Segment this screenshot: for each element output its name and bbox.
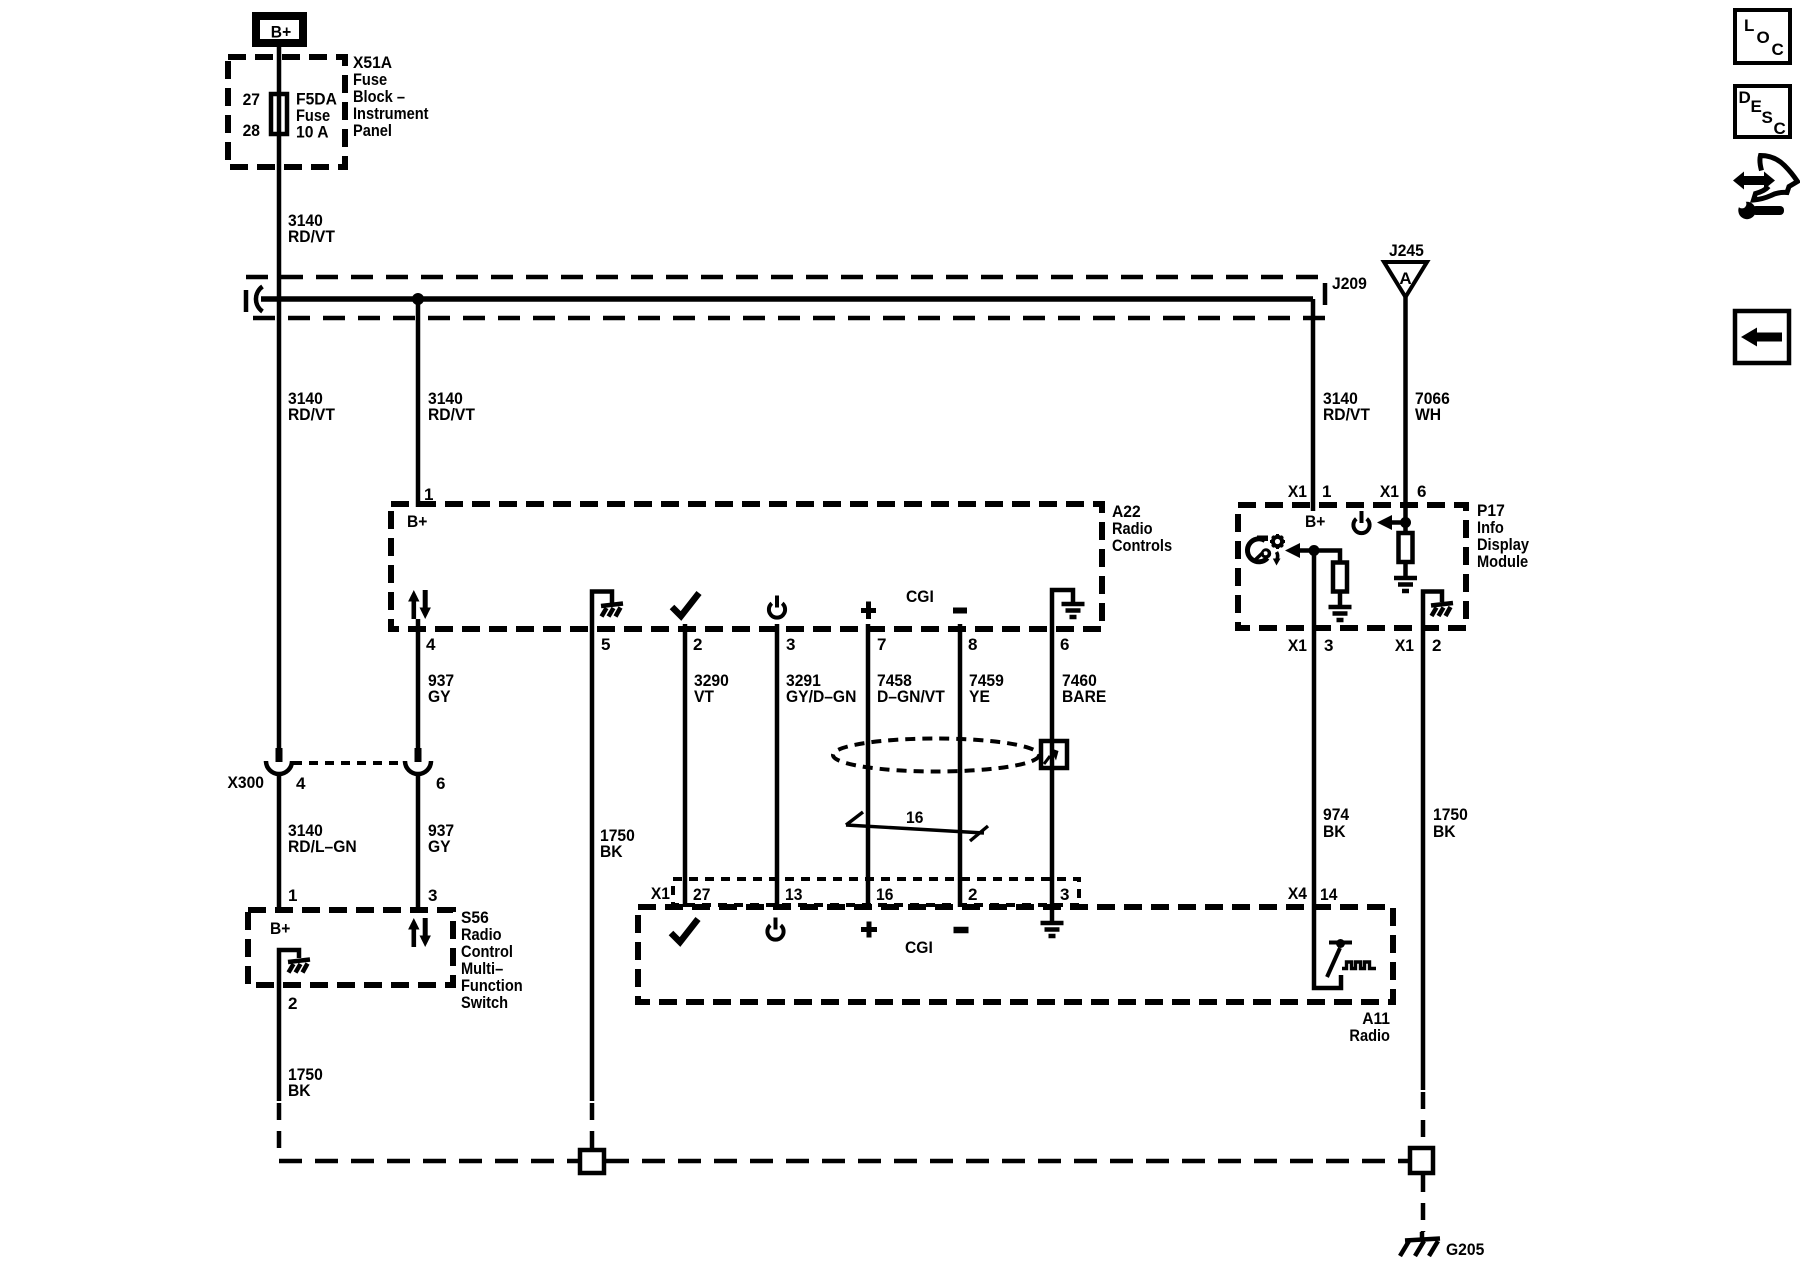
svg-text:6: 6 [1417,482,1426,501]
svg-text:Switch: Switch [461,993,508,1012]
svg-text:RD/VT: RD/VT [288,405,335,424]
svg-text:O: O [1757,28,1770,47]
svg-text:14: 14 [1320,885,1338,904]
svg-text:16: 16 [906,808,923,827]
svg-text:2: 2 [1432,636,1441,655]
svg-text:1: 1 [1322,482,1331,501]
svg-text:E: E [1751,97,1762,116]
svg-text:X1: X1 [1288,482,1307,501]
svg-text:13: 13 [785,885,802,904]
svg-text:VT: VT [694,687,715,706]
svg-text:YE: YE [969,687,990,706]
svg-text:BARE: BARE [1062,687,1106,706]
svg-text:27: 27 [243,90,260,109]
svg-text:5: 5 [601,635,610,654]
svg-text:C: C [1774,119,1786,138]
svg-text:8: 8 [968,635,977,654]
svg-text:16: 16 [876,885,893,904]
svg-text:2: 2 [968,885,977,904]
svg-text:CGI: CGI [906,587,934,606]
svg-text:RD/VT: RD/VT [1323,405,1370,424]
svg-text:L: L [1744,16,1754,35]
svg-text:Module: Module [1477,552,1528,571]
svg-text:GY/D–GN: GY/D–GN [786,687,856,706]
svg-text:WH: WH [1415,405,1441,424]
svg-text:B+: B+ [1305,512,1325,531]
svg-text:GY: GY [428,687,451,706]
svg-text:B+: B+ [407,512,427,531]
svg-text:4: 4 [426,635,436,654]
svg-text:RD/L–GN: RD/L–GN [288,837,357,856]
svg-text:7: 7 [877,635,886,654]
svg-text:X1: X1 [1380,482,1399,501]
svg-text:Panel: Panel [353,121,392,140]
svg-text:S: S [1762,108,1773,127]
svg-text:BK: BK [1433,822,1456,841]
svg-text:C: C [1772,40,1784,59]
svg-text:X1: X1 [1395,636,1414,655]
svg-text:6: 6 [1060,635,1069,654]
svg-text:Controls: Controls [1112,536,1172,555]
svg-text:X300: X300 [228,773,265,792]
svg-text:X1: X1 [651,884,670,903]
svg-text:BK: BK [1323,822,1346,841]
svg-text:J245: J245 [1389,241,1424,260]
svg-text:3: 3 [1324,636,1333,655]
svg-text:6: 6 [436,774,445,793]
svg-text:B+: B+ [270,919,290,938]
svg-text:3: 3 [428,886,437,905]
svg-text:4: 4 [296,774,306,793]
svg-text:BK: BK [600,842,623,861]
svg-text:CGI: CGI [905,938,933,957]
svg-text:G205: G205 [1446,1240,1484,1259]
svg-text:RD/VT: RD/VT [288,227,335,246]
svg-text:RD/VT: RD/VT [428,405,475,424]
svg-text:D–GN/VT: D–GN/VT [877,687,945,706]
svg-text:Radio: Radio [1349,1026,1390,1045]
svg-text:A: A [1399,269,1411,288]
svg-text:3: 3 [1060,885,1069,904]
svg-text:B+: B+ [271,23,291,42]
svg-text:28: 28 [243,121,260,140]
svg-text:27: 27 [693,885,710,904]
svg-text:X1: X1 [1288,636,1307,655]
svg-text:10 A: 10 A [296,123,329,142]
svg-text:3: 3 [786,635,795,654]
svg-text:J209: J209 [1332,274,1367,293]
svg-text:D: D [1739,88,1751,107]
svg-text:BK: BK [288,1081,311,1100]
svg-text:2: 2 [288,994,297,1013]
svg-text:GY: GY [428,837,451,856]
svg-text:1: 1 [288,886,297,905]
svg-text:X4: X4 [1288,884,1308,903]
svg-text:2: 2 [693,635,702,654]
